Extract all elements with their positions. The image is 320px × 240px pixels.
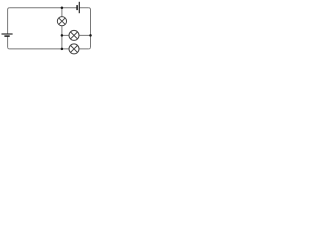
wire top-right corner — [89, 8, 91, 10]
wire left side lower — [7, 37, 9, 48]
junction node mid-left — [61, 34, 64, 37]
junction node mid-right — [89, 34, 92, 37]
junction node bottom — [61, 48, 64, 51]
lamp L1 — [57, 17, 66, 26]
cell B2 long plate — [78, 2, 80, 13]
wire right side — [90, 10, 92, 48]
wire middle vertical — [61, 8, 63, 49]
lamp L3 — [69, 44, 79, 54]
wire bottom-left corner — [8, 47, 10, 49]
wire bottom-right corner — [89, 47, 91, 49]
wire branch middle horizontal — [62, 34, 91, 36]
battery B1 short plate — [4, 35, 9, 37]
wire top-left corner — [8, 8, 10, 10]
wire left side upper — [7, 10, 9, 34]
cell B2 short plate — [76, 5, 78, 10]
wire bottom rail — [9, 48, 88, 50]
lamp L2 — [69, 30, 79, 40]
junction node top — [61, 6, 64, 9]
battery B1 long plate — [2, 33, 13, 35]
wire top rail — [9, 7, 88, 9]
